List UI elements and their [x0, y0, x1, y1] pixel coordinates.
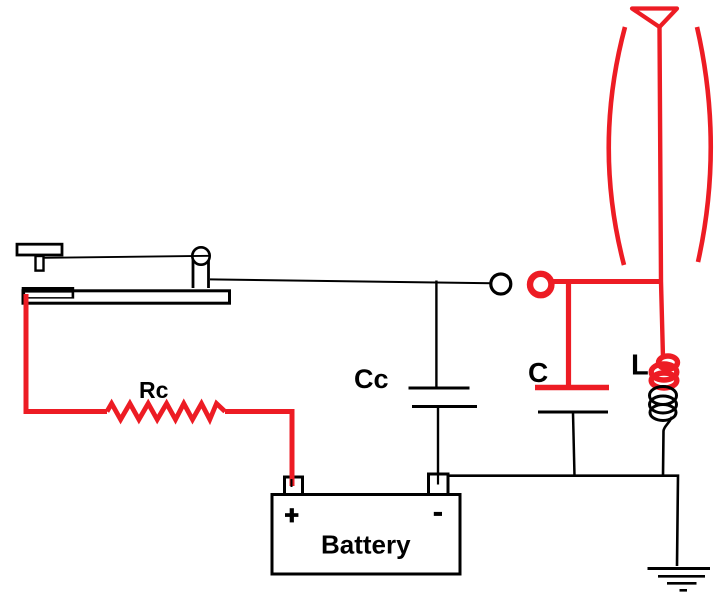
spark gap electrode red	[530, 274, 551, 295]
label C	[528, 357, 548, 388]
capacitor Cc bottom plate	[412, 405, 477, 408]
battery positive terminal	[285, 477, 303, 495]
wire Rc to battery positive	[225, 412, 292, 487]
wire junction to Cc	[435, 281, 437, 388]
wire to capacitor C	[566, 282, 571, 390]
inductor L black turns	[650, 387, 677, 421]
battery B1 body	[272, 495, 460, 575]
battery minus sign	[434, 512, 442, 516]
capacitor Cc top plate	[409, 387, 470, 390]
wire Cc to battery negative	[437, 407, 439, 477]
svg-text:Cc: Cc	[354, 364, 389, 394]
label Battery	[321, 530, 411, 560]
spark gap electrode black	[491, 274, 511, 294]
inductor tail wire	[663, 417, 672, 476]
battery negative terminal	[429, 474, 449, 495]
telegraph key contact block	[22, 287, 74, 299]
label L	[631, 350, 649, 382]
radiation arc right	[697, 27, 711, 262]
telegraph key knob stem	[36, 256, 44, 271]
inductor L red turns	[651, 356, 677, 388]
telegraph key pivot	[192, 247, 209, 264]
telegraph key lever arm	[44, 256, 210, 258]
telegraph key S1 base	[23, 291, 230, 303]
capacitor C top plate	[535, 385, 609, 391]
telegraph key post	[193, 259, 209, 288]
resistor Rc	[107, 404, 225, 420]
red wire from key	[26, 294, 107, 412]
ground symbol	[648, 569, 711, 591]
wire spark gap to antenna	[551, 279, 663, 284]
svg-text:Battery: Battery	[321, 530, 411, 560]
label Rc	[139, 377, 169, 403]
svg-text:L: L	[631, 350, 649, 382]
battery plus sign	[285, 508, 298, 522]
capacitor C bottom plate	[538, 411, 608, 414]
svg-text:Rc: Rc	[139, 377, 169, 403]
ground bus wire	[438, 476, 678, 566]
antenna mast wire	[660, 27, 664, 358]
battery negative lead tip	[437, 475, 439, 485]
battery positive lead tip	[291, 479, 293, 487]
antenna triangle	[632, 9, 677, 28]
wire C to ground bus	[573, 413, 575, 476]
radiation arc left	[609, 27, 625, 265]
wire key to spark gap	[210, 279, 492, 283]
svg-text:C: C	[528, 357, 548, 388]
label Cc	[354, 364, 389, 394]
telegraph key knob	[17, 244, 62, 255]
